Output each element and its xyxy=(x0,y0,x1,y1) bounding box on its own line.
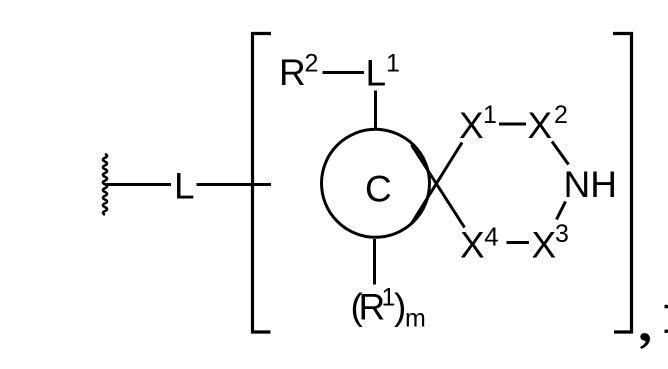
bond ring to R1 xyxy=(373,239,376,285)
right bracket xyxy=(613,34,632,333)
svg-text:R: R xyxy=(279,52,306,93)
svg-text:1: 1 xyxy=(386,50,400,78)
spiro bond ring to X1 xyxy=(412,143,463,224)
svg-text:4: 4 xyxy=(484,222,498,252)
ring C circle xyxy=(322,129,430,237)
svg-text:X: X xyxy=(459,105,484,146)
svg-text:NH: NH xyxy=(564,164,617,205)
bond X1 to X2 xyxy=(499,123,526,126)
bond X4 to X3 xyxy=(507,241,530,244)
bond NH to X3 xyxy=(557,202,566,220)
attachment point squiggle xyxy=(103,154,107,215)
svg-text:X: X xyxy=(532,225,557,266)
edge mark lower xyxy=(665,330,668,333)
bond X2 to NH xyxy=(552,142,569,165)
spiro bond ring to X4 xyxy=(412,145,465,228)
bond L1 to ring xyxy=(374,91,377,130)
svg-text:3: 3 xyxy=(555,220,569,248)
svg-text:1: 1 xyxy=(483,101,497,129)
left bracket xyxy=(253,34,272,333)
svg-text:m: m xyxy=(405,305,426,333)
wire squiggle to L xyxy=(106,183,172,186)
svg-text:2: 2 xyxy=(554,101,568,129)
svg-text:C: C xyxy=(365,169,392,210)
svg-text:L: L xyxy=(366,53,387,94)
bond R2 to L1 xyxy=(323,71,365,74)
svg-text:L: L xyxy=(174,166,195,207)
edge mark upper xyxy=(665,305,668,309)
svg-text:X: X xyxy=(528,105,553,146)
svg-text:X: X xyxy=(460,225,485,266)
svg-text:2: 2 xyxy=(305,50,319,78)
wire L to bracket xyxy=(197,183,272,186)
comma xyxy=(640,333,650,349)
